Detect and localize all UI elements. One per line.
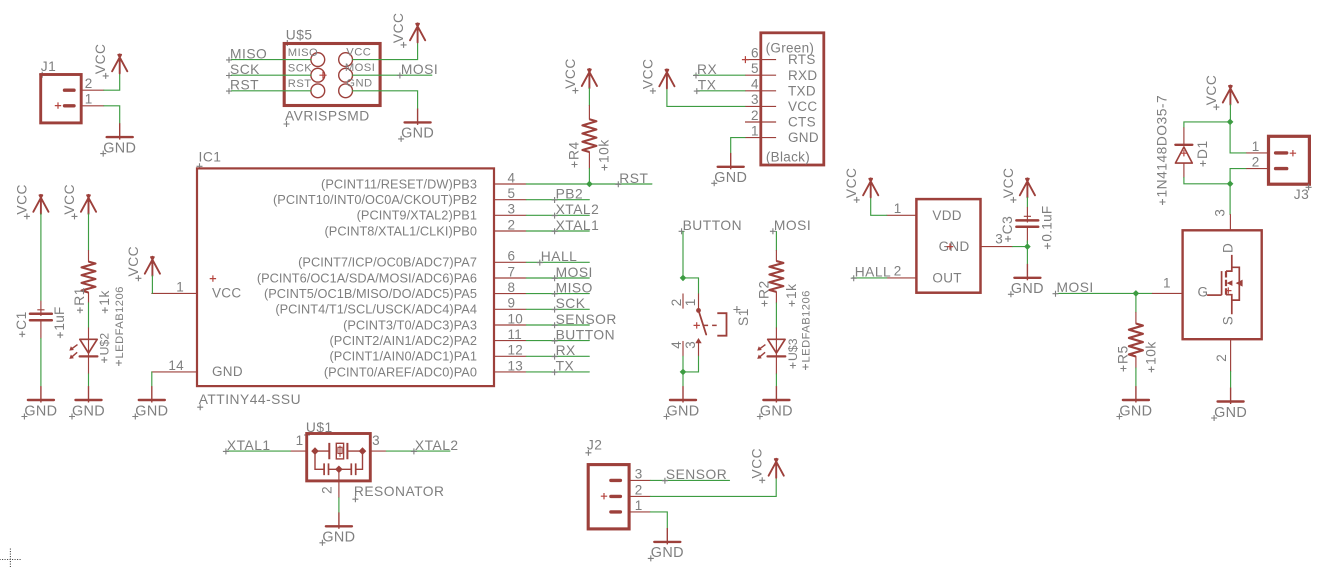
svg-text:VCC: VCC [1001,167,1016,198]
svg-text:TXD: TXD [788,83,816,98]
power symbol VCC at R1 [62,184,96,219]
svg-text:GND: GND [651,545,684,561]
IC1 pin 8 line [494,293,526,295]
resistor R2 top pin [775,251,777,261]
connector J1 pin contact 1 [65,104,75,107]
resistor R2 bottom pin [775,292,777,303]
svg-text:2: 2 [508,217,516,232]
svg-text:XTAL2: XTAL2 [415,438,459,453]
svg-text:2: 2 [1214,354,1229,362]
sheet origin dotted cross [0,549,21,568]
svg-text:VCC: VCC [346,46,371,58]
S1 pin number 2 [669,298,684,306]
value 10k of R5 [1143,341,1158,372]
svg-text:MOSI: MOSI [774,218,811,233]
svg-text:RXD: RXD [788,68,817,83]
wire R2 to LED U$3 [775,303,777,328]
label IC1 [197,150,222,170]
svg-text:1: 1 [894,201,902,216]
power symbol VCC at FTDI [640,58,674,93]
FTDI label (Black) [766,150,810,165]
value LEDFAB1206 of U$2 [114,286,126,366]
svg-text:(PCINT5/OC1B/MISO/DO/ADC5)PA5: (PCINT5/OC1B/MISO/DO/ADC5)PA5 [264,286,477,301]
resistor R2 [769,261,783,292]
wire J2 pin 2 to VCC [650,478,776,497]
wire J1 pin1 to GND [104,106,120,123]
svg-text:10k: 10k [1143,341,1158,365]
LED U$2 top pin [88,328,90,339]
svg-text:8: 8 [508,280,516,295]
power symbol VCC at J1 [93,43,127,78]
resonator crystal inner mark [338,447,342,453]
wire net TX to FTDI [697,90,745,92]
wire RST into U$5 [232,90,311,92]
pin 1 of J2 [629,511,650,513]
svg-text:2: 2 [894,263,902,278]
resistor R1 top pin [88,251,90,262]
wire net HALL to hall sensor OUT [852,277,887,279]
power symbol VCC at C3 [1001,167,1035,202]
IC1 pin 14 line [152,371,197,373]
svg-text:VCC: VCC [391,12,406,43]
svg-text:R5: R5 [1115,345,1130,364]
net label RST [615,171,648,188]
svg-text:CTS: CTS [788,115,816,130]
svg-text:BUTTON: BUTTON [683,218,742,233]
svg-text:J3: J3 [1294,187,1310,202]
pin number 1 of J2 [635,498,643,513]
svg-text:(PCINT0/AREF/ADC0)PA0: (PCINT0/AREF/ADC0)PA0 [324,364,477,379]
resistor R5 [1129,324,1143,357]
Q1 gate pin 1 line [1152,292,1182,294]
value 0.1uF [1040,206,1055,250]
wire net SCK stub [526,308,589,310]
origin cross FTDI header [742,56,749,63]
FTDI pin 3 line [745,105,776,107]
value 1uF [52,306,67,338]
wire net HALL stub [526,261,589,263]
IC1 pin 3 line [494,214,526,216]
IC1 pin 6 line [494,261,526,263]
hall sensor body [916,199,980,293]
hall sensor pin name GND [939,239,970,254]
wire U$3 to GND [775,374,777,386]
svg-text:(Black): (Black) [766,150,810,165]
svg-text:3: 3 [372,433,380,448]
hall sensor pin number 2 [894,263,902,278]
svg-text:4: 4 [508,170,516,185]
origin cross hall sensor [947,243,953,249]
power symbol VCC at R4 [563,58,597,93]
hall sensor pin 2 line [887,277,917,279]
pin 2 of J1 [81,89,104,91]
wire R4 to RST net [588,168,590,184]
svg-text:1: 1 [1163,275,1171,290]
hall sensor pin number 1 [894,201,902,216]
ground symbol at Q1 [1211,388,1247,421]
connector J1 body [41,75,81,123]
ground symbol at S1 [664,386,700,419]
Q1 pin name S [1220,316,1235,325]
IC1 pin 12 line [494,355,526,357]
wire net MOSI stub [526,277,589,279]
FTDI pin 4 line [745,90,776,92]
svg-text:VCC: VCC [1204,75,1219,106]
wire VCC to IC1 pin 1 [151,276,153,294]
IC1 pin 7 line [494,277,526,279]
svg-text:5: 5 [751,61,759,76]
svg-text:2: 2 [1252,155,1260,170]
Q1 pin name D [1220,243,1235,253]
origin cross D1 [1181,150,1187,156]
wire J1 pin2 to VCC [104,73,120,90]
resistor R4 top pin [588,106,590,120]
svg-text:VCC: VCC [14,184,29,215]
svg-text:1N4148DO35-7: 1N4148DO35-7 [1155,95,1170,198]
wire VCC to FTDI pin 3 [667,88,745,106]
svg-text:2: 2 [85,76,93,91]
svg-text:ATTINY44-SSU: ATTINY44-SSU [199,392,301,407]
U$5 GND pad (right) [339,84,353,98]
resistor R5 bottom pin [1135,357,1137,369]
svg-text:GND: GND [135,403,168,419]
net label BUTTON at S1 [679,218,742,235]
svg-text:TX: TX [698,78,717,93]
svg-text:TX: TX [556,359,575,374]
wire S1 to GND [682,372,684,386]
origin cross Q1 [1225,287,1231,293]
net label SCK [226,62,260,79]
wire net TX stub [526,371,589,373]
value 1k [97,290,112,313]
net label MOSI at R2 [770,218,811,235]
wire net BUTTON stub [526,340,589,342]
net label XTAL2 [552,202,600,219]
wire VCC to R1 [88,214,90,251]
net label SENSOR [552,312,617,329]
svg-text:U$5: U$5 [286,28,313,43]
IC1 pin name VCC [212,286,241,301]
pin 2 of J3 [1247,168,1269,170]
resonator U$1 body [307,434,371,481]
net label HALL at sensor [851,265,892,282]
svg-text:GND: GND [939,239,970,254]
wire junction to D1 top [1184,122,1230,128]
svg-text:(PCINT2/AIN1/ADC2)PA2: (PCINT2/AIN1/ADC2)PA2 [330,333,477,348]
svg-text:1k: 1k [97,290,112,306]
svg-text:10k: 10k [597,139,612,163]
switch S1 lower contact [695,338,701,343]
svg-text:MISO: MISO [288,47,318,59]
net label XTAL2 at resonator [411,438,459,455]
capacitor C1 plates [30,314,52,320]
hall sensor pin number 3 [995,232,1003,247]
ground symbol at C3 [1008,264,1044,297]
name S1 [736,308,751,326]
wire C3 to junction [1026,241,1028,247]
name R5 [1115,345,1130,371]
net label XTAL1 at resonator [223,438,271,455]
S1 pin number 1 [683,298,698,306]
svg-text:3: 3 [751,92,759,107]
S1 pin 4 line [682,341,684,356]
Q1 drain pin 3 line [1229,215,1231,231]
U$5 pad label MOSI [345,62,375,74]
wire net MISO stub [526,293,589,295]
U$5 pad label VCC [346,46,371,58]
resonator pin number 1 [296,433,304,448]
connector J2 pin contact 3 [611,479,621,482]
connector J3 pin contact 1 [1276,151,1287,154]
svg-text:11: 11 [508,327,523,342]
ground symbol at J2 [648,528,684,561]
svg-text:SCK: SCK [288,63,312,75]
wire junction down to Q1 drain [1229,184,1231,215]
svg-text:4: 4 [751,77,759,92]
wire VCC to hall sensor VDD [871,197,887,215]
svg-text:XTAL1: XTAL1 [227,438,271,453]
Q1 source pin 2 line [1230,339,1232,371]
svg-text:VCC: VCC [750,448,765,479]
svg-text:(PCINT3/T0/ADC3)PA3: (PCINT3/T0/ADC3)PA3 [343,317,477,332]
wire from S1 pin 3 [683,356,699,372]
junction RST / R4 [586,181,593,188]
hall sensor pin name VDD [932,208,961,223]
resonator internal bottom path and caps [315,451,363,469]
svg-text:PB2: PB2 [556,187,584,202]
name R1 [72,287,87,313]
value 1k of R2 [784,283,799,306]
FTDI header body [761,33,824,165]
svg-text:GND: GND [212,364,243,379]
wire C1 to GND [40,339,42,387]
transistor Q1 body [1183,230,1262,339]
origin cross S1 [694,322,700,328]
Q1 mosfet channel dashes [1225,271,1227,295]
connector J2 pin contact 2 [611,495,621,498]
Q1 pin number 3 [1212,209,1227,217]
label ATTINY44-SSU [197,392,301,410]
power symbol VCC at hall sensor [844,167,878,202]
switch S1 upper contact [696,308,701,313]
svg-text:R4: R4 [567,141,582,160]
S1 pin 2 line [682,294,684,308]
svg-text:1: 1 [176,280,184,295]
net label TX at FTDI [694,78,717,95]
LED U$3 bottom pin [775,356,777,374]
LED U$2 bottom pin [88,356,90,374]
resonator pin 2 line [338,469,340,498]
power symbol VCC at J3 [1204,75,1238,110]
svg-text:1uF: 1uF [52,306,67,330]
capacitor C3 bottom pin [1026,227,1028,243]
resonator internal right node dot [359,447,367,455]
svg-text:2: 2 [751,108,759,123]
U$5 MISO pad (left) [311,53,325,67]
resonator internal left node dot [311,447,319,455]
Q1 mosfet substrate arrow [1227,280,1233,286]
power symbol VCC at U$5 [391,12,425,47]
svg-text:(PCINT4/T1/SCL/USCK/ADC4)PA4: (PCINT4/T1/SCL/USCK/ADC4)PA4 [275,302,477,317]
wire net RX to FTDI [694,74,745,76]
IC1 pin 13 line [494,371,526,373]
hall sensor pin 3 line [981,246,1013,248]
net label SCK [552,296,586,313]
svg-text:13: 13 [508,358,524,373]
capacitor C3 plates [1016,220,1038,226]
ground symbol at resonator [319,512,355,545]
svg-text:S: S [1220,316,1235,325]
svg-text:RST: RST [288,78,312,90]
IC1 pin 10 line [494,324,526,326]
IC1 pin number 14 [168,358,184,373]
wire VCC to R4 [588,88,590,106]
wire BUTTON label down [682,232,684,278]
svg-text:3: 3 [635,466,643,481]
resonator pin number 2 [320,486,335,494]
svg-text:(PCINT11/RESET/DW)PB3: (PCINT11/RESET/DW)PB3 [321,176,477,191]
FTDI pin 2 line [745,121,776,123]
ground symbol at U$5 [398,109,434,142]
svg-text:J1: J1 [41,59,57,74]
U$5 SCK pad (left) [311,68,325,82]
net label BUTTON [552,327,615,344]
wire Q1 source to GND [1230,371,1232,387]
hall sensor pin name OUT [932,270,961,285]
label RESONATOR [352,484,444,502]
net label MOSI [552,265,593,282]
wire net XTAL2 stub [526,214,589,216]
svg-text:10: 10 [508,311,524,326]
resonator crystal plates [329,443,347,459]
net label RX [552,343,576,360]
wire D1 bottom to junction [1184,178,1230,184]
hall sensor pin 1 line [887,214,917,216]
origin cross U$5 [319,72,326,79]
svg-text:D: D [1220,243,1235,253]
svg-text:(PCINT10/INT0/OC0A/CKOUT)PB2: (PCINT10/INT0/OC0A/CKOUT)PB2 [273,192,477,207]
resistor R5 top pin [1135,313,1137,324]
wire net SENSOR stub [526,324,589,326]
svg-text:HALL: HALL [541,249,578,264]
svg-text:RTS: RTS [788,52,816,67]
cross at S1 name [733,306,740,313]
name U$2 [97,333,111,363]
svg-text:LEDFAB1206: LEDFAB1206 [114,286,126,358]
wire R1 to LED U$2 [88,303,90,328]
svg-text:GND: GND [788,130,819,145]
diode D1 anode pin [1183,163,1185,177]
S1 pin 1 line [698,294,700,308]
junction hall GND / C3 [1024,243,1031,250]
svg-text:HALL: HALL [855,265,892,280]
capacitor C1 bottom pin [40,320,42,338]
wire net PB2 stub [526,199,589,201]
svg-text:LEDFAB1206: LEDFAB1206 [801,290,813,362]
net label RST at U$5 [226,78,259,95]
resonator crystal body rect [336,443,343,459]
LED U$2 [69,339,97,359]
resonator pin number 3 [372,433,380,448]
Q1 mosfet gate lead [1207,294,1222,296]
connector J1 pin contact 2 [65,88,75,91]
svg-text:2: 2 [320,486,335,494]
svg-text:7: 7 [508,264,516,279]
switch S1 actuator dashed link [704,324,718,326]
microcontroller IC1 body [197,168,494,386]
svg-text:1: 1 [635,498,643,513]
wire U$2 to GND [88,374,90,386]
svg-text:GND: GND [72,403,105,419]
svg-text:VDD: VDD [932,208,961,223]
wire net RST from IC1 pin 4 [526,183,652,185]
pin number 1 of J3 [1252,139,1260,154]
wire resonator pin 2 to GND [338,498,340,513]
S1 pin number 3 [683,341,698,349]
switch S1 actuator bracket [717,313,726,336]
U$5 RST pad (left) [311,84,325,98]
wire junction to J3 pin 2 [1230,169,1247,184]
label J2 [585,437,602,456]
svg-text:VCC: VCC [844,167,859,198]
label U$1 [304,420,333,438]
net label RX at FTDI [693,62,717,79]
junction MOSI / R5 [1133,290,1140,297]
Q1 mosfet gate bar [1221,271,1223,295]
pin number 3 of J2 [635,466,643,481]
svg-text:MOSI: MOSI [556,265,593,280]
svg-text:VCC: VCC [563,58,578,89]
svg-text:U$2: U$2 [97,333,111,356]
connector J2 body [588,465,629,529]
wire from S1 pin 4 [682,356,684,372]
IC1 pin 4 line [494,183,526,185]
name D1 [1195,140,1210,166]
ground symbol at J1 [100,123,136,156]
wire U$5 VCC pad to VCC [353,42,418,59]
U$5 MOSI pad (right) [339,68,353,82]
wire MOSI label down to R2 [775,232,777,251]
wire U$5 GND pad to GND [353,91,418,109]
net label XTAL1 [552,218,600,235]
pin 3 of J2 [629,479,650,481]
resistor R1 [82,262,96,293]
S1 pin 3 line [698,341,700,356]
svg-text:RX: RX [697,62,717,77]
svg-text:6: 6 [508,249,516,264]
pin number 2 of J1 [85,76,93,91]
IC1 pin 5 line [494,199,526,201]
wire junction to J3 pin 1 [1230,122,1247,153]
svg-text:(PCINT7/ICP/OC0B/ADC7)PA7: (PCINT7/ICP/OC0B/ADC7)PA7 [298,255,477,270]
power symbol VCC at C1 [14,184,48,219]
ground symbol at U$3 [757,386,793,419]
label J1 [39,59,56,78]
resonator cap plates [324,463,356,475]
svg-text:MOSI: MOSI [401,62,438,77]
wire U$5 MOSI pad stub [353,74,432,76]
LED U$3 [757,339,785,359]
net label MISO [226,46,267,63]
svg-text:5: 5 [508,186,516,201]
value LEDFAB1206 of U$3 [801,290,813,370]
svg-text:3: 3 [508,202,516,217]
FTDI pin 1 line [745,137,776,139]
FTDI pin 5 line [745,74,776,76]
svg-text:BUTTON: BUTTON [556,327,615,342]
Q1 pin number 2 [1214,354,1229,362]
IC1 pin 11 line [494,340,526,342]
